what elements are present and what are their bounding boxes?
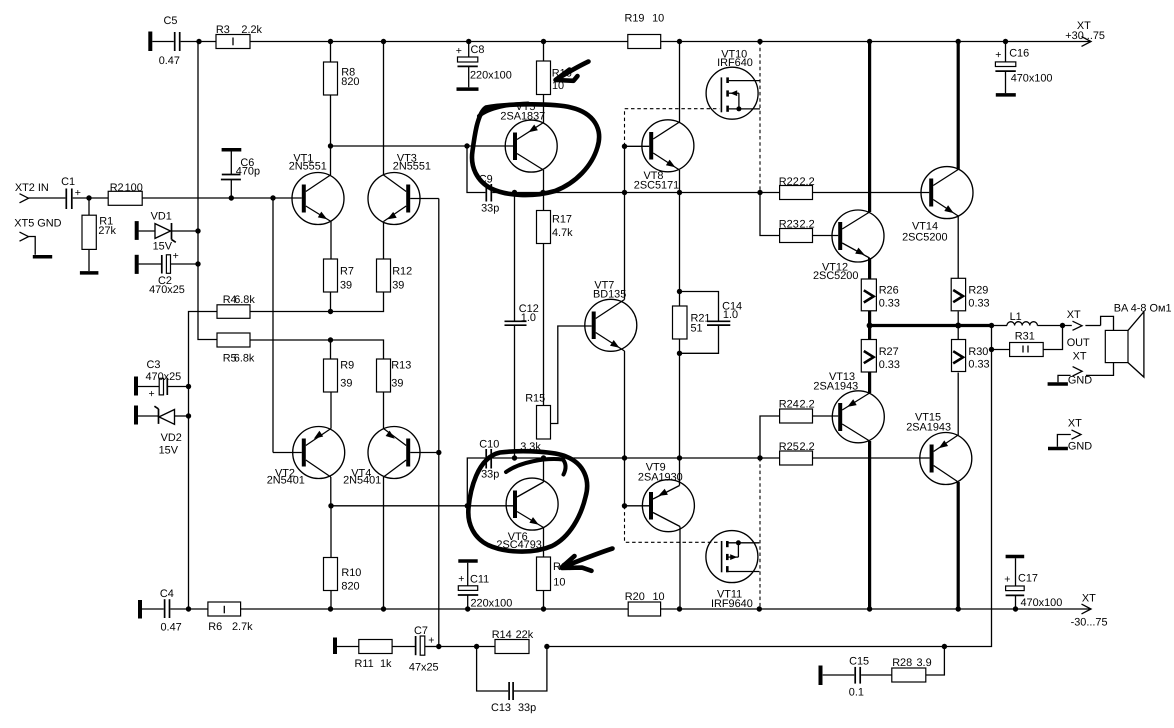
wire VT14 emitter [957,216,959,280]
resistor R5 [217,333,255,364]
thermal dashed link top [625,109,720,147]
svg-text:R11: R11 [355,658,374,670]
node C7 feedback [436,644,441,649]
wire VT5 base line [331,145,514,147]
svg-text:VD2: VD2 [161,432,182,444]
node VD1 [195,228,200,233]
svg-text:0.33: 0.33 [879,298,900,310]
svg-text:33p: 33p [481,203,499,215]
node R8 top [328,39,333,44]
svg-text:0.47: 0.47 [161,622,182,634]
svg-text:C15: C15 [849,656,869,668]
wire L1 to XT [1037,325,1071,327]
node bus-R rail [956,39,961,44]
resistor R13 [377,359,412,392]
svg-text:GND: GND [1068,440,1092,452]
resistor R30 fusible [952,340,990,372]
terminal XT5 GND [14,218,61,257]
wire bus-L bottom [868,441,871,609]
svg-text:22k: 22k [516,629,534,641]
node C8 rail [466,39,471,44]
svg-text:2N5551: 2N5551 [289,161,327,173]
resistor R16 [537,61,572,95]
node bus-L rail [867,39,872,44]
wire VAS top line [492,192,779,194]
node C3 [186,384,191,389]
capacitor C3 [136,359,189,400]
node VT4 base [436,450,441,455]
wire feedback right [547,326,992,647]
transistor VT12 2SC5200 [813,210,884,282]
thermal dashed right bottom [759,458,761,609]
node L1-R31 [1060,323,1065,328]
svg-text:R27: R27 [879,346,899,358]
wire VT8 base drop [624,146,626,192]
transistor VT2 2N5401 [267,427,345,487]
resistor R20 [625,591,665,616]
node R18 bottom [541,606,546,611]
svg-text:R10: R10 [341,567,361,579]
node C11 rail [465,606,470,611]
capacitor C14 [680,292,743,354]
svg-text:6.8k: 6.8k [234,352,255,364]
node VT10 rail [757,39,762,44]
node VT5 collector [540,190,545,195]
wire zener bus 1 [198,42,217,340]
capacitor C1 [61,176,108,209]
node VT7 emitter [622,455,627,460]
resistor R24 [760,399,838,458]
svg-text:R30: R30 [968,346,988,358]
svg-text:R26: R26 [879,285,899,297]
svg-text:1.0: 1.0 [521,312,536,324]
node output bus-R [955,323,961,329]
node VT4 collector rail [381,606,386,611]
resistor R8 [324,62,360,95]
svg-text:2SA1837: 2SA1837 [500,111,545,123]
svg-text:R29: R29 [968,284,988,296]
resistor R10 [324,506,362,609]
svg-text:2.2: 2.2 [800,399,815,411]
svg-text:2N5551: 2N5551 [393,161,431,173]
resistor R14 [492,629,534,654]
wire -V rail left segment [142,608,208,610]
wire bus-L top [868,42,871,213]
svg-text:6.8k: 6.8k [234,294,255,306]
node VT1 base [270,195,275,200]
svg-text:2.2: 2.2 [800,176,815,188]
svg-text:C4: C4 [160,588,174,600]
resistor R29 fusible [951,278,989,311]
svg-text:R25: R25 [779,441,799,453]
svg-text:R31: R31 [1015,330,1035,342]
svg-text:R14: R14 [492,629,512,641]
terminal XT +30...75 [1065,20,1105,46]
svg-text:0.47: 0.47 [159,55,180,67]
wire bus-R bottom [957,482,960,609]
wire VT5 emitter [543,42,545,123]
wire VT8 base line [625,145,650,147]
svg-text:GND: GND [1068,375,1092,387]
diode VD1 15V [137,211,198,253]
svg-text:IRF640: IRF640 [717,57,753,69]
resistor R6 [208,602,253,633]
terminal XT GND chassis [1048,418,1092,453]
wire +V rail left segment [152,41,216,43]
svg-text:+: + [428,634,434,646]
wire VT6 emitter [543,528,545,558]
svg-text:2SC5171: 2SC5171 [634,180,679,192]
node C2 [195,261,200,266]
svg-text:15V: 15V [153,240,173,252]
node R15 bottom [541,455,546,460]
resistor R17 [537,193,574,406]
svg-text:R6: R6 [208,621,222,633]
svg-text:0.1: 0.1 [849,686,864,698]
resistor R4 [217,294,255,318]
node R10 bottom [328,606,333,611]
svg-text:C8: C8 [471,44,485,56]
svg-text:470x25: 470x25 [146,371,182,383]
wire zener bus 2 [189,312,218,610]
node C17 rail [1013,606,1018,611]
node output R31 left [989,323,994,328]
resistor R7 [324,259,354,312]
svg-text:R20: R20 [625,591,645,603]
transistor VT6 2SC4793 [496,478,558,551]
svg-text:R22: R22 [779,176,799,188]
resistor R1 [82,198,117,271]
capacitor C9 [467,146,499,215]
svg-text:+30...75: +30...75 [1065,30,1105,42]
ground under R1 [80,271,99,275]
svg-text:2N5401: 2N5401 [267,474,305,486]
wire input to VT1/VT2 bases [142,197,302,199]
svg-text:470x100: 470x100 [1011,73,1053,85]
svg-text:39: 39 [340,280,352,292]
node R7 bottom [328,309,333,314]
annotation arrow at R18 [562,549,613,571]
svg-text:XT: XT [1082,593,1096,605]
svg-text:0.33: 0.33 [879,359,900,371]
wire R29 to R30 [957,312,959,341]
capacitor C17 [1004,557,1062,610]
wire -V rail right segment [661,608,1091,610]
capacitor C15 [821,656,892,699]
svg-text:100: 100 [125,182,143,194]
node R31 left [989,347,994,352]
svg-text:39: 39 [391,378,403,390]
diode VD2 15V [136,406,189,457]
wire VT9 base line [625,505,650,507]
transistor VT10 IRF640 [706,49,760,120]
wire VT11 drain [729,571,760,573]
transistor VT14 2SC5200 [902,167,973,244]
resistor R3 [216,24,263,48]
svg-text:470x25: 470x25 [149,284,185,296]
wire VT7 collector [624,193,626,300]
svg-text:4.7k: 4.7k [552,227,573,239]
wire output line [870,324,1007,327]
wire feedback line left [439,646,495,648]
svg-text:BD135: BD135 [593,289,626,301]
node VT1 collector [328,143,333,148]
svg-text:VD1: VD1 [151,211,172,223]
resistor R12 [377,259,413,292]
resistor R23 [760,193,838,243]
svg-text:33p: 33p [481,469,499,481]
wire VT8 collector [679,42,681,123]
wire R4 to R7/R12 [250,292,384,312]
annotation blob around VT6 [468,451,587,551]
svg-text:2.2: 2.2 [800,441,815,453]
wire VT5 collector [543,170,545,193]
capacitor C8 [456,42,512,90]
svg-text:33p: 33p [518,702,536,714]
svg-text:C11: C11 [470,574,489,586]
node C9 tap [464,143,469,148]
svg-text:27k: 27k [98,225,116,237]
svg-text:10: 10 [653,591,665,603]
transistor VT1 2N5551 [289,152,344,224]
svg-text:OUT: OUT [1067,337,1090,349]
svg-text:+: + [456,45,462,57]
node C13 right [544,644,549,649]
wire R5 to R9/R13 [250,340,384,359]
resistor R22 [779,176,815,200]
svg-text:820: 820 [341,581,359,593]
node VAS-R22 [757,190,762,195]
transistor VT7 BD135 [585,280,637,352]
svg-text:C5: C5 [164,15,178,27]
node VT9 collector rail [677,606,682,611]
svg-text:R28: R28 [892,657,912,669]
node C10 tap [465,503,470,508]
wire VT6 collector [543,458,545,482]
svg-text:220x100: 220x100 [470,69,512,81]
annotation arrow at R16 [556,62,589,81]
terminal XT -30...75 [1071,593,1108,629]
capacitor C11 [458,561,512,610]
svg-text:39: 39 [392,280,404,292]
node VT8 collector rail [677,39,682,44]
svg-text:R19: R19 [625,12,645,24]
wire +V rail right segment [661,41,1091,43]
resistor R11 [337,640,392,671]
wire VT4 leads [384,392,439,609]
wire VT3 leads [384,42,439,260]
node C6 input [229,195,234,200]
capacitor C12 [505,193,539,459]
svg-text:R17: R17 [552,214,572,226]
svg-text:0.33: 0.33 [968,297,989,309]
svg-text:39: 39 [340,378,352,390]
svg-text:2SA1943: 2SA1943 [906,422,951,434]
svg-text:R7: R7 [340,266,354,278]
svg-text:R3: R3 [216,24,230,36]
node bus-R rail bottom [956,606,961,611]
wire R26 to R27 [868,311,871,339]
svg-text:R2: R2 [110,182,124,194]
svg-text:XT2 IN: XT2 IN [15,182,49,194]
resistor R28 [892,647,945,683]
wire VT1 collector [330,42,333,260]
wire VT9 base drop [624,458,626,506]
svg-text:R15: R15 [525,393,545,405]
wire R22 to VT14 base [813,192,930,194]
node bus-L rail bottom [867,606,872,611]
svg-text:47x25: 47x25 [409,662,439,674]
svg-text:R24: R24 [779,399,799,411]
transistor VT15 2SA1943 [906,412,972,485]
capacitor C4 [140,588,182,634]
svg-text:+: + [995,49,1001,61]
svg-text:BA 4-8 Ом1: BA 4-8 Ом1 [1114,303,1172,315]
svg-text:10: 10 [652,12,664,24]
capacitor C5 [150,15,180,67]
resistor R21 [673,193,711,486]
svg-text:XT: XT [1073,350,1087,362]
thermal dashed link bottom [625,506,720,543]
annotation blob around VT5 [472,104,599,196]
resistor R31 [992,326,1063,357]
resistor R18 [537,557,573,609]
resistor R25 [779,441,930,465]
svg-text:IRF9640: IRF9640 [711,598,753,610]
svg-text:220x100: 220x100 [471,598,513,610]
wire -V rail middle segment [241,608,629,610]
transistor VT13 2SA1943 [813,371,884,443]
wire VT6 base line [331,505,513,507]
svg-text:R9: R9 [340,360,354,372]
transistor VT5 2SA1837 [500,101,557,172]
svg-text:C17: C17 [1018,573,1038,585]
svg-text:15V: 15V [159,444,179,456]
node R16 top [541,39,546,44]
node C5-R3 [196,39,201,44]
transistor VT4 2N5401 [343,427,420,487]
node C13 left [474,644,479,649]
transistor VT3 2N5551 [368,152,431,224]
node VT3 collector rail [381,39,386,44]
svg-text:C1: C1 [61,176,75,188]
svg-text:0.33: 0.33 [968,358,989,370]
svg-text:470p: 470p [236,165,260,177]
node output bus-L [867,323,873,329]
transistor VT11 IRF9640 [706,531,759,610]
node VT8 base [622,144,627,149]
transistor VT8 2SC5171 [634,120,694,192]
resistor R2 [108,182,143,205]
transistor VT9 2SA1930 [638,462,695,532]
terminal XT2 IN [15,182,66,203]
resistor R27 fusible [861,340,900,373]
resistor R15 trimmer [520,326,592,453]
svg-text:820: 820 [341,76,359,88]
svg-text:2.2k: 2.2k [241,24,262,36]
node VT2 collector [328,503,333,508]
svg-text:1k: 1k [380,658,392,670]
wire +V rail middle segment [250,41,628,43]
wire VT2 base drop [272,198,274,453]
node C1-R1 [86,195,91,200]
svg-text:XT5 GND: XT5 GND [14,218,61,230]
wire VT7 emitter [624,351,626,458]
svg-text:L1: L1 [1010,311,1022,323]
capacitor C10 [467,439,499,506]
capacitor C13 [477,647,547,715]
node VT8 emitter [677,190,682,195]
node bias-R24 [757,455,762,460]
svg-text:2SA1943: 2SA1943 [813,380,858,392]
wire bias line [492,457,779,459]
node VT7-VT8 [622,190,627,195]
wire R27 to VT13 [868,372,871,394]
node C16 rail [1003,39,1008,44]
node C12 bottom [512,455,517,460]
terminal XT GND output [1048,350,1114,386]
svg-text:C3: C3 [147,359,161,371]
svg-text:2SA1930: 2SA1930 [638,472,683,484]
capacitor C16 [995,42,1052,95]
resistor R19 [625,12,665,48]
wire VT9 collector [679,527,681,610]
svg-text:10: 10 [553,577,565,589]
svg-text:R12: R12 [392,266,412,278]
node VT11 rail [757,606,762,611]
inductor L1 [1007,311,1037,326]
svg-text:R23: R23 [779,218,799,230]
svg-text:470x100: 470x100 [1021,597,1063,609]
node R21 top [677,289,682,294]
wire VT2 leads [273,392,331,506]
svg-text:2.2: 2.2 [800,218,815,230]
svg-text:XT: XT [1068,418,1082,430]
svg-text:XT: XT [1067,309,1081,321]
svg-text:+: + [173,250,179,262]
svg-text:1.0: 1.0 [723,309,738,321]
capacitor C2 [137,250,198,296]
svg-text:2.7k: 2.7k [232,621,253,633]
svg-text:+: + [1004,573,1010,585]
svg-text:+: + [149,388,155,400]
node R9 top [328,337,333,342]
wire R30 to VT15 [957,373,959,436]
svg-text:C13: C13 [491,702,511,714]
svg-text:+: + [458,573,464,585]
node R21 bottom [677,351,682,356]
svg-text:51: 51 [691,323,703,335]
svg-text:-30...75: -30...75 [1071,616,1108,628]
terminal XT OUT [1067,309,1114,349]
svg-text:C7: C7 [414,625,428,637]
node R28 tap [942,644,947,649]
svg-text:2SC5200: 2SC5200 [813,270,858,282]
node VT9 base [622,503,627,508]
svg-text:R13: R13 [391,360,411,372]
thermal dashed right top [759,42,761,193]
node C12 top [512,190,517,195]
resistor R9 [324,340,355,392]
node VT9 emitter [677,455,682,460]
wire VT12 emitter [868,258,871,280]
wire feedback column [438,199,440,647]
capacitor C7 [392,625,439,674]
wire VT8 emitter [679,170,681,193]
speaker BA 4-8 Om1 [1105,303,1171,377]
svg-text:C10: C10 [479,439,499,451]
svg-text:2N5401: 2N5401 [343,474,381,486]
